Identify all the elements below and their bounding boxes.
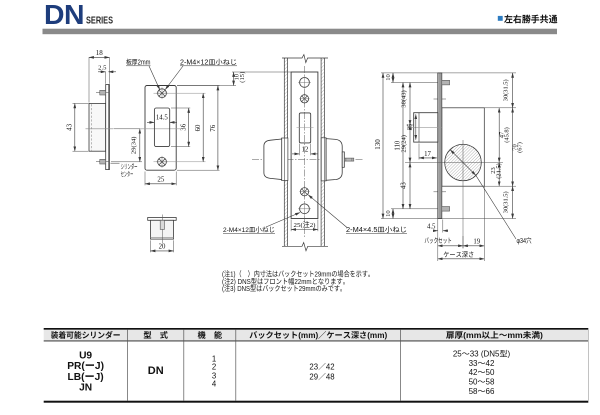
v1 dim 2.5 ext bbox=[105, 72, 107, 84]
svg-text:43: 43 bbox=[400, 182, 407, 189]
dim 10(15) bbox=[233, 72, 235, 86]
svg-text:20: 20 bbox=[159, 243, 166, 250]
svg-text:(15): (15) bbox=[239, 72, 246, 83]
svg-text:型 式: 型 式 bbox=[143, 329, 168, 341]
v4 dim 70(67) bbox=[512, 108, 514, 186]
v4 faceplate edge bbox=[438, 73, 442, 219]
v3 left rose bbox=[282, 138, 288, 181]
v4 ext case bottom bbox=[484, 185, 516, 187]
v4 ext bottom screw bbox=[391, 208, 442, 210]
v4 dia arrows bbox=[450, 150, 463, 163]
svg-text:76: 76 bbox=[210, 124, 217, 131]
table header band bbox=[44, 330, 589, 341]
v4 chain tick bbox=[407, 124, 414, 126]
svg-text:2.5: 2.5 bbox=[98, 64, 107, 71]
svg-text:JN: JN bbox=[79, 379, 92, 394]
v3 bottom screw bbox=[300, 188, 308, 196]
v1 bottom screw stub bbox=[100, 159, 106, 164]
v3 dim 25(note2) ext bbox=[290, 220, 292, 232]
svg-text:38(43): 38(43) bbox=[400, 90, 407, 107]
v1 dim 2.5 arrows bbox=[98, 71, 106, 73]
cap dim 20 ext bbox=[150, 240, 152, 252]
v2 centerline gray bbox=[140, 128, 180, 130]
v4 screw tick top bbox=[434, 98, 447, 100]
v1 faceplate inner line bbox=[107, 85, 109, 170]
v4 faceplate inner line bbox=[439, 73, 441, 219]
table right edge line bbox=[587, 330, 589, 401]
svg-text:(45.8): (45.8) bbox=[504, 127, 511, 142]
v3 knob centerline bbox=[252, 159, 363, 161]
svg-text:12: 12 bbox=[302, 146, 309, 153]
table column line 2 bbox=[183, 330, 185, 401]
svg-text:60: 60 bbox=[195, 124, 202, 131]
v4 latch center gray line bbox=[407, 127, 442, 129]
v1 top screw stub bbox=[100, 90, 106, 95]
v3 strike center gray line bbox=[297, 127, 314, 129]
v4 ext backset left bbox=[437, 219, 439, 262]
v2 dim 76 ext bbox=[177, 85, 220, 87]
v4 screw tick bottom bbox=[434, 191, 447, 193]
v2 strike plate bbox=[145, 86, 176, 171]
v4 dim 29(34) bbox=[409, 125, 411, 163]
v4 ext plate bottom bbox=[381, 218, 516, 220]
table top border bbox=[44, 328, 589, 330]
svg-text:10: 10 bbox=[385, 210, 392, 217]
v1 centerline bbox=[86, 128, 114, 130]
v4 dim 4.5 arrows bbox=[433, 230, 438, 232]
table header underline bbox=[44, 340, 589, 343]
v4 dim 10 bottom bbox=[392, 209, 394, 219]
cap dim 20 bbox=[151, 250, 174, 252]
cap flange bbox=[148, 218, 177, 221]
table bottom border bbox=[44, 401, 589, 403]
v2 dim 14.5 arrows bbox=[147, 121, 154, 123]
svg-text:25: 25 bbox=[157, 176, 165, 184]
v1 cylinder-center leader bbox=[111, 162, 120, 164]
v4 ext top screw bbox=[391, 82, 442, 84]
v4 bottom screw stub bbox=[442, 207, 450, 212]
v3 leader 2-M4x12 bottom bbox=[266, 213, 300, 228]
cap body bbox=[151, 220, 174, 239]
v3 door hatch right bbox=[321, 58, 324, 246]
v4 dim 30(31.5) bottom bbox=[512, 186, 514, 218]
svg-text:10: 10 bbox=[385, 74, 392, 81]
v2 leader 2-M4x12 top bbox=[165, 66, 183, 90]
v4 ext case top bbox=[484, 107, 516, 109]
svg-text:(67): (67) bbox=[517, 142, 524, 153]
svg-text:機 能: 機 能 bbox=[198, 329, 223, 341]
v4 dia leader bbox=[476, 175, 516, 239]
v2 screw-center line top bbox=[154, 92, 206, 94]
svg-text:29(34): 29(34) bbox=[131, 137, 138, 155]
header rule bar bbox=[43, 29, 558, 35]
v2 bottom screw bbox=[156, 156, 168, 168]
v1 dim 18 ext left bbox=[88, 57, 90, 102]
v3 top hole bbox=[300, 78, 310, 88]
v3 dim 12 arrows bbox=[292, 153, 299, 155]
v2 latch cutout bbox=[154, 108, 169, 147]
svg-text:130: 130 bbox=[374, 139, 382, 150]
v2 dim 36 bbox=[188, 108, 190, 147]
svg-text:19: 19 bbox=[473, 239, 480, 246]
svg-text:装着可能シリンダー: 装着可能シリンダー bbox=[51, 329, 121, 341]
v3 vertical centerline bbox=[304, 66, 306, 237]
v2 dim 25 ext bbox=[144, 172, 146, 186]
table column line 3 bbox=[235, 330, 237, 401]
cap body bottom line bbox=[151, 237, 174, 239]
svg-text:2-M4×12皿小ねじ: 2-M4×12皿小ねじ bbox=[223, 224, 275, 234]
v1 faceplate edge bbox=[106, 85, 110, 170]
v4 ext plate top bbox=[381, 72, 516, 74]
v1 dim 29(34) ext bottom bbox=[111, 161, 142, 163]
v4 dim backset bbox=[438, 245, 463, 247]
v1 bottom screw line bbox=[96, 161, 109, 163]
svg-text:17: 17 bbox=[424, 151, 431, 158]
svg-text:φ34穴: φ34穴 bbox=[517, 236, 532, 246]
dim 10(15) ext top bbox=[232, 71, 291, 73]
svg-text:バックセット: バックセット bbox=[424, 236, 452, 246]
svg-text:ケース深さ: ケース深さ bbox=[443, 250, 474, 260]
v4 dim 17 ext bbox=[418, 144, 420, 160]
v4 latch bolt bbox=[414, 113, 438, 142]
v1 dim 29(34) ext top bbox=[114, 128, 143, 130]
v2 leader 板厚2mm bbox=[149, 66, 160, 90]
v3 left escutcheon bbox=[264, 139, 282, 180]
v3 faceplate bbox=[291, 72, 318, 219]
v2 screw-center line bottom bbox=[154, 161, 206, 163]
v4 dim 25 latch bbox=[415, 114, 417, 139]
svg-text:センター: センター bbox=[121, 168, 134, 178]
v3 door hatch left bbox=[284, 58, 287, 246]
v3 door left wall bbox=[283, 58, 285, 246]
v4 dim 19 bbox=[463, 245, 484, 247]
v3 top screw bbox=[300, 95, 308, 103]
v4 dim 17 bbox=[419, 157, 437, 159]
v1 dim 18 bbox=[89, 56, 109, 58]
svg-text:4.5: 4.5 bbox=[427, 224, 436, 231]
svg-text:25: 25 bbox=[407, 123, 414, 130]
v4 dim 110 bbox=[402, 83, 404, 209]
v3 break top bbox=[282, 55, 328, 63]
v1 strike box hidden line bbox=[91, 104, 93, 150]
table column line 4 bbox=[400, 330, 402, 401]
v2 dim 36 ext bbox=[171, 107, 190, 109]
v4 cylinder vertical centerline bbox=[462, 140, 464, 248]
v4 latch bolt face line bbox=[418, 113, 420, 142]
svg-text:(注3) DNS型はバックセット29mmのみです。: (注3) DNS型はバックセット29mmのみです。 bbox=[222, 283, 346, 294]
table column line 1 bbox=[127, 330, 129, 401]
v4 dim 43 bbox=[409, 163, 411, 209]
svg-text:14.5: 14.5 bbox=[156, 115, 168, 122]
svg-text:左右勝手共通: 左右勝手共通 bbox=[504, 11, 558, 25]
svg-text:58～66: 58～66 bbox=[469, 386, 495, 397]
v4 dim 10 top bbox=[392, 73, 394, 83]
v4 dim 30(31.5) top bbox=[512, 73, 514, 108]
v3 latch cutout bbox=[299, 113, 310, 143]
svg-text:DN: DN bbox=[44, 0, 84, 30]
v1 dim 18 ext right bbox=[108, 57, 110, 84]
svg-text:(21.5): (21.5) bbox=[496, 163, 503, 178]
v3 dim 12 ext bbox=[298, 144, 300, 156]
svg-text:18: 18 bbox=[96, 49, 104, 57]
svg-text:30(31.5): 30(31.5) bbox=[502, 79, 509, 101]
v3 bottom hole bbox=[300, 204, 310, 214]
v3 cylinder face bbox=[342, 152, 344, 167]
svg-text:扉厚(mm以上～mm未満): 扉厚(mm以上～mm未満) bbox=[446, 329, 543, 341]
v4 dim 130 bbox=[382, 73, 384, 219]
v3 door right wall bbox=[320, 58, 322, 246]
v4 dim 47(45.8) bbox=[498, 108, 500, 163]
cap centerline bbox=[161, 215, 163, 244]
v4 cylinder hole bbox=[445, 144, 482, 181]
v3 right escutcheon bbox=[326, 139, 342, 181]
v4 ext backset mid bbox=[462, 236, 464, 249]
v2 dim 60 bbox=[202, 93, 204, 162]
svg-text:30(31.5): 30(31.5) bbox=[502, 191, 509, 213]
v3 leader 2-M4x4.5 bbox=[308, 195, 347, 228]
v4 dim 23(21.5) bbox=[498, 163, 500, 187]
svg-text:SERIES: SERIES bbox=[86, 16, 113, 27]
svg-text:29／48: 29／48 bbox=[309, 371, 334, 382]
v1 strike box bbox=[89, 103, 106, 151]
svg-text:36: 36 bbox=[181, 123, 188, 130]
v4 case box bbox=[442, 108, 485, 186]
v4 top screw stub bbox=[442, 80, 450, 85]
v2 top screw bbox=[156, 87, 168, 99]
v4 cylinder centerline bbox=[405, 162, 503, 164]
v3 key shaft bbox=[344, 158, 353, 161]
v1 dim 43 bbox=[74, 103, 76, 151]
cap hole bbox=[160, 220, 164, 229]
v2 dim 25 bbox=[145, 183, 176, 185]
v4 dim 4.5 ext bbox=[442, 220, 444, 233]
v2 dim 76 bbox=[217, 86, 219, 171]
svg-text:バックセット(mm)／ケース深さ(mm): バックセット(mm)／ケース深さ(mm) bbox=[249, 329, 387, 341]
svg-text:25(注2): 25(注2) bbox=[294, 220, 316, 229]
v3 break bottom bbox=[282, 243, 328, 251]
v3 right rose bbox=[321, 138, 326, 181]
svg-text:43: 43 bbox=[66, 123, 73, 130]
v1 dim 29(34) bbox=[139, 129, 141, 162]
v4 dim case depth bbox=[438, 258, 485, 260]
v4 ext case right bbox=[483, 186, 485, 261]
v3 dim 25(note2) bbox=[291, 229, 318, 231]
svg-text:DN: DN bbox=[148, 362, 164, 378]
v1 dim 43 ext bbox=[73, 102, 89, 104]
svg-text:4: 4 bbox=[212, 379, 217, 390]
svg-text:29(24): 29(24) bbox=[400, 135, 407, 152]
v4 dim 38(43) bbox=[409, 83, 411, 126]
dim 10(15) ext bottom bbox=[177, 85, 236, 87]
top-right legend square bbox=[498, 16, 503, 21]
v1 top screw line bbox=[96, 92, 109, 94]
